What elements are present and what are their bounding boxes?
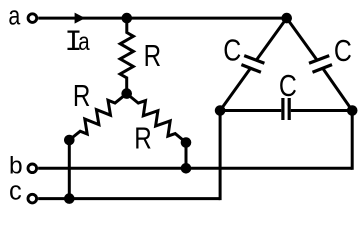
wire: left node down to c line: [68, 140, 71, 199]
resistor R2 (left diagonal of wye): [69, 94, 126, 140]
svg-text:R: R: [134, 121, 152, 155]
node: wye center: [121, 88, 132, 99]
wire a: junction to delta apex: [127, 17, 287, 20]
svg-text:R: R: [144, 39, 162, 73]
capacitor C2 (delta right side): [287, 18, 353, 110]
wire: right node down to b line: [185, 143, 188, 169]
wire: riser from b line up to delta bottom-right: [351, 111, 354, 170]
node: junction on b line: [181, 163, 192, 174]
svg-text:b: b: [9, 153, 23, 180]
node: right wye end: [181, 137, 192, 148]
node: junction on c line: [64, 193, 75, 204]
wire b: terminal to riser at delta bottom-right: [38, 167, 352, 170]
terminal b: [28, 164, 37, 173]
terminal c: [28, 194, 37, 203]
svg-text:C: C: [334, 33, 352, 68]
svg-text:R: R: [73, 79, 91, 113]
node: delta bottom-left: [215, 105, 226, 116]
wire: riser from c line up to delta bottom-left: [219, 111, 222, 201]
svg-text:a: a: [8, 2, 21, 30]
current arrow Ia: [75, 13, 86, 24]
svg-text:C: C: [279, 68, 297, 103]
svg-text:c: c: [9, 178, 22, 206]
node: delta bottom-right: [347, 105, 358, 116]
wire a: terminal to junction: [38, 17, 127, 20]
resistor R1 (vertical, phase a of wye): [120, 18, 133, 94]
capacitor C3 (delta bottom side): [220, 98, 352, 120]
node: left wye end: [64, 135, 75, 146]
resistor R3 (right diagonal of wye): [127, 94, 186, 143]
wire c: terminal to riser at delta bottom-left: [38, 197, 220, 200]
node: delta apex: [281, 13, 292, 24]
svg-text:a: a: [78, 28, 89, 56]
svg-text:C: C: [223, 33, 241, 68]
node: junction on wire a: [122, 13, 133, 24]
capacitor C1 (delta left side): [220, 18, 287, 110]
terminal a: [28, 14, 37, 23]
